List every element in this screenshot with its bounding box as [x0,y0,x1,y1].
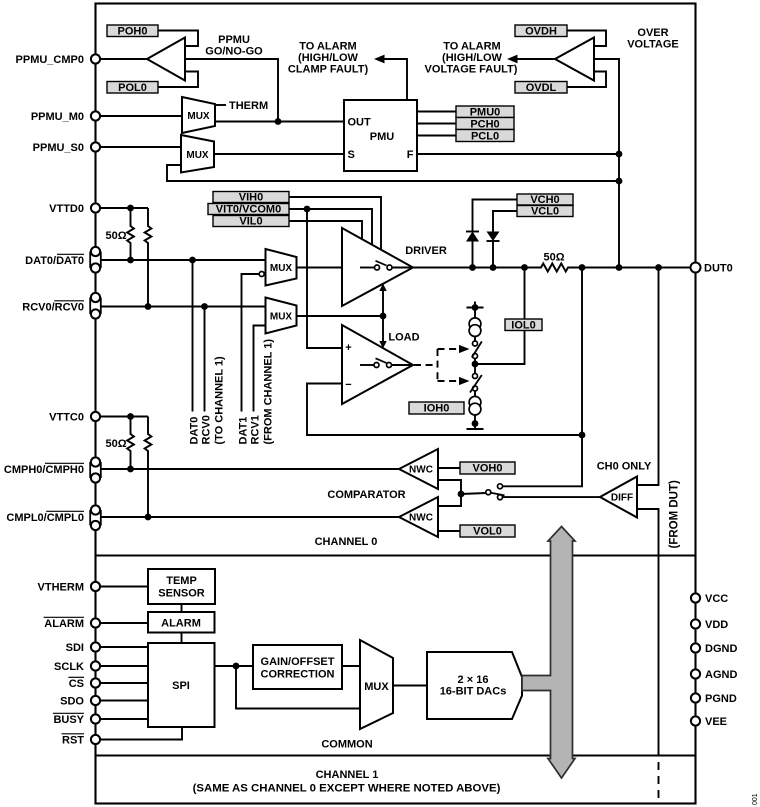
node RCV0 tap to channel 1 [201,303,208,310]
pin SDI [66,642,100,654]
svg-text:VIT0/VCOM0: VIT0/VCOM0 [216,204,281,216]
resistor 50ohm R2 [145,208,152,307]
diode clamp VCL0 [487,211,518,268]
svg-text:BUSY: BUSY [53,714,84,726]
PMU0 label box [456,106,514,119]
wire DUT branch down to DIFF [637,268,659,486]
dashed wire load output [414,364,438,366]
dashed wire channel1 stub [658,762,660,798]
wire DAT0 down to channel 1 [192,260,194,412]
svg-text:S: S [348,149,355,161]
svg-text:OVER: OVER [637,27,668,39]
wire RST [101,727,182,740]
node diode2 [490,264,497,271]
svg-text:MUX: MUX [186,150,209,161]
node comparator branch [579,264,586,271]
svg-text:PCL0: PCL0 [471,131,499,143]
wire VTTC0 to resistors [100,416,148,418]
svg-text:RST: RST [62,735,84,747]
svg-text:RCV1: RCV1 [250,415,262,444]
wire PMU F to node x619 [417,153,619,155]
wire DAT1 from channel 1 [242,274,259,412]
svg-text:MUX: MUX [270,263,293,274]
svg-text:16-BIT DACs: 16-BIT DACs [440,686,507,698]
pin VTTD0 [49,203,100,215]
svg-text:SCLK: SCLK [54,661,84,673]
divider common/channel1 [96,754,696,756]
wire temp sensor to alarm [181,604,183,612]
wire PMU to PMU0 box [417,111,456,113]
svg-text:CHANNEL 1: CHANNEL 1 [316,769,379,781]
svg-text:−: − [345,379,351,391]
wire VIL0 to driver [289,221,362,240]
svg-text:VEE: VEE [705,716,727,728]
wire NWC to VOH0 [438,467,460,469]
mux S0 [181,135,214,173]
rail stub bottom of load chain [467,415,484,430]
svg-text:RCV0/RCV0: RCV0/RCV0 [22,302,84,314]
pin SDO [60,696,100,708]
svg-text:VCH0: VCH0 [530,194,559,206]
wire alarm to spi [181,633,183,644]
svg-text:TEMP: TEMP [166,575,197,587]
wire mux S0 aux loop to node at x619 [167,165,619,181]
op-amp LOAD [342,325,413,404]
op-amp DRIVER [342,228,413,306]
svg-text:DAT1: DAT1 [238,417,250,445]
wire POH0 to comparator [158,31,198,47]
svg-text:50Ω: 50Ω [105,230,126,242]
svg-text:RCV0: RCV0 [201,415,213,444]
wire PPMU_S0 to mux [100,146,181,148]
svg-text:+: + [345,342,351,354]
svg-text:VOH0: VOH0 [473,463,503,475]
wire VIH0 to driver [289,197,381,250]
mux M0 [182,97,215,133]
wire DAT0 to mux [101,259,266,261]
node THERM junction [275,118,282,125]
wire RCV0 down to channel 1 [204,307,206,412]
wire THERM stub [215,104,226,106]
mux RCV [266,298,297,334]
arrow link driver-load [379,284,386,349]
node R2 to RCV0 [145,303,152,310]
pin CMPL0/CMPL0 [6,505,100,530]
wire NWC inputs link [438,480,461,506]
svg-text:50Ω: 50Ω [105,438,126,450]
wire mux M0 out to PMU OUT [215,121,344,123]
svg-text:VOLTAGE FAULT): VOLTAGE FAULT) [425,64,518,76]
pin ALARM [44,618,100,630]
OVDH label box [515,25,567,38]
wire RCV0 to mux [101,306,266,308]
op-amp DIFF [600,477,637,518]
svg-text:DAT0/DAT0: DAT0/DAT0 [25,255,84,267]
wire ov comparator input from DUT line [594,59,619,268]
svg-text:CLAMP FAULT): CLAMP FAULT) [288,64,369,76]
wire PPMU_CMP0 to comparator tip [100,58,147,60]
switch IOH [470,364,482,393]
wire RCV mux out to load node [297,315,384,317]
arrow to alarm clamp fault [374,55,385,64]
svg-text:GAIN/OFFSET: GAIN/OFFSET [261,656,335,668]
svg-text:CORRECTION: CORRECTION [261,669,335,681]
POL0 label box [107,82,158,95]
svg-text:VTTC0: VTTC0 [49,412,84,424]
wire SDO [101,700,148,702]
block 2x16 16-BIT DACs [427,652,522,719]
pin CS [69,678,100,690]
svg-text:(FROM DUT): (FROM DUT) [669,480,681,549]
svg-text:IOH0: IOH0 [424,403,450,415]
svg-text:PPMU_CMP0: PPMU_CMP0 [16,54,84,66]
node comparator line junction [579,432,586,439]
overline CMPH0 pin second [45,462,84,464]
svg-text:F: F [407,149,414,161]
svg-text:DGND: DGND [705,643,737,655]
pin BUSY [53,714,100,726]
diode clamp VCH0 [466,200,517,268]
wire VIT0/VCOM0 to driver [289,209,372,245]
svg-text:PPMU: PPMU [218,34,250,46]
svg-text:NWC: NWC [409,465,433,476]
node load branch [521,264,528,271]
svg-text:DAT0: DAT0 [189,417,201,445]
node diff branch [655,264,662,271]
svg-text:AGND: AGND [705,669,737,681]
svg-text:COMPARATOR: COMPARATOR [327,489,405,501]
pin VDD [691,619,728,631]
label PPMU GO/NO-GO [205,34,263,58]
IOL0 label box [505,319,542,332]
wire PMU to PCL0 box [417,135,456,137]
label TO ALARM (HIGH/LOW CLAMP FAULT) [288,41,369,76]
svg-text:SDI: SDI [66,642,84,654]
mux DAC select [360,640,393,729]
node R1 to DAT0 [127,257,134,264]
wire CMPH0 to NWC [101,468,399,470]
svg-text:DRIVER: DRIVER [405,245,447,257]
wire cs to switch [474,336,476,341]
pin RST [62,735,100,747]
svg-text:CMPL0/CMPL0: CMPL0/CMPL0 [6,512,84,524]
inverted input circle on DAT mux [259,272,264,277]
wire POL0 to comparator [158,72,198,88]
svg-text:OUT: OUT [348,117,372,129]
pin PPMU_S0 [33,142,100,154]
svg-text:2 × 16: 2 × 16 [458,674,489,686]
svg-text:DIFF: DIFF [611,493,633,504]
node ov branch [616,264,623,271]
pin PPMU_M0 [31,111,100,123]
wire PMU to PCH0 box [417,123,456,125]
svg-text:IOL0: IOL0 [511,320,535,332]
svg-text:ALARM: ALARM [44,618,84,630]
svg-text:LOAD: LOAD [388,332,419,344]
resistor 50ohm R4 [145,417,152,518]
current source IOL0 [469,318,481,337]
pin VTHERM [38,582,101,594]
dashed bracket to load switches [438,345,470,385]
svg-text:VCL0: VCL0 [531,206,559,218]
pin AGND [691,669,738,681]
wire SPI to gain/offset [215,665,254,667]
svg-text:(HIGH/LOW: (HIGH/LOW [442,52,502,64]
label TO ALARM (HIGH/LOW VOLTAGE FAULT) [425,41,518,76]
VIT0/VCOM0 label box [208,204,289,216]
VIL0 label box [213,216,289,228]
wire OVDH to ov comparator [567,31,606,47]
wire load center to DUT line [475,268,525,365]
arrow to alarm voltage fault [507,55,518,64]
node SPI out [233,663,240,670]
svg-text:COMMON: COMMON [321,739,372,751]
svg-text:OVDH: OVDH [525,26,557,38]
node VCOM tap [304,206,311,213]
svg-text:CMPH0/CMPH0: CMPH0/CMPH0 [4,464,84,476]
svg-text:(SAME AS CHANNEL 0 EXCEPT WHER: (SAME AS CHANNEL 0 EXCEPT WHERE NOTED AB… [193,783,501,795]
wire SCLK [101,665,148,667]
resistor 50ohm R1 [127,208,134,260]
wire pole to switch [461,493,486,494]
wire PMU top to clamp-fault arrow [383,59,407,100]
pin CMPH0/CMPH0 [4,457,101,482]
svg-text:TO ALARM: TO ALARM [443,41,500,53]
switch inside load [360,358,411,367]
bus DAC distribution arrow [522,527,575,779]
block SPI [148,643,215,727]
overline DAT0 pin second [57,253,84,255]
pin DUT0 [691,263,701,273]
wire comparator input from THERM node [185,59,278,122]
node comparator switch pole [458,491,465,498]
node aux junction [616,178,623,185]
pin DGND [691,643,738,655]
svg-text:ALARM: ALARM [161,618,201,630]
svg-text:PMU: PMU [370,131,395,143]
mux DAT [266,249,297,286]
svg-text:001: 001 [752,793,759,805]
svg-text:VOL0: VOL0 [473,526,502,538]
wire VCOM to load + input [307,209,342,348]
node DAT0 tap to channel 1 [189,257,196,264]
PCH0 label box [456,118,514,131]
svg-text:POH0: POH0 [118,26,148,38]
svg-text:MUX: MUX [187,111,210,122]
svg-text:CHANNEL 0: CHANNEL 0 [315,536,378,548]
wire switch to DIFF output [503,496,601,498]
svg-text:VIL0: VIL0 [239,216,262,228]
svg-text:GO/NO-GO: GO/NO-GO [205,46,263,58]
VOL0 label box [460,525,515,538]
wire mux S0 out to PMU S [214,153,344,155]
pin VTTC0 [49,412,100,424]
svg-text:CS: CS [69,678,84,690]
OVDL label box [515,82,567,95]
svg-text:50Ω: 50Ω [543,252,564,264]
svg-text:(HIGH/LOW: (HIGH/LOW [298,52,358,64]
node R3 to CMPH0 [127,466,134,473]
op-amp NWC high [399,449,438,489]
VOH0 label box [460,462,515,475]
overline BUSY pin [53,712,84,714]
overline RCV0 pin second [54,300,84,302]
pin DAT0/DAT0 [25,247,101,273]
wire VTHERM to temp sensor [101,586,148,588]
wire ov comparator output [516,58,555,60]
svg-text:(TO CHANNEL 1): (TO CHANNEL 1) [214,356,226,445]
current source IOH0 [469,391,481,415]
resistor 50ohm R3 [127,417,134,470]
node VTTC0 tap [127,413,134,420]
svg-text:CH0 ONLY: CH0 ONLY [597,461,652,473]
svg-text:DUT0: DUT0 [704,263,733,275]
overline CMPL0 pin second [46,510,84,512]
svg-text:VTHERM: VTHERM [38,582,84,594]
block GAIN/OFFSET CORRECTION [253,645,342,689]
wire OVDL to ov comparator [567,72,606,88]
wire CS [101,682,148,684]
svg-text:PCH0: PCH0 [470,119,499,131]
divider channel0/common [96,554,696,556]
pin PPMU_CMP0 [16,54,101,66]
node load center [472,361,479,368]
pin VEE [691,716,727,728]
wire NWC to VOL0 [438,530,460,532]
overline ALARM pin [44,616,84,618]
wire CMPL0 to NWC [101,516,399,518]
wire mux to DACs [393,685,427,687]
VCH0 label box [517,194,573,206]
wire DIFF lower output [637,509,659,756]
svg-text:PPMU_M0: PPMU_M0 [31,111,84,123]
wire DAT mux out to driver [297,267,343,269]
svg-text:OVDL: OVDL [526,82,557,94]
wire SPI to mux lower input [236,666,360,709]
POH0 label box [107,25,158,38]
pin VCC [691,593,728,605]
svg-text:SDO: SDO [60,696,84,708]
op-amp over voltage comparator [555,38,594,81]
svg-text:VDD: VDD [705,619,728,631]
outer chip border [96,4,696,804]
wire BUSY [101,718,148,720]
wire PPMU_M0 to mux [100,115,182,117]
wire ALARM pin to alarm block [101,622,148,624]
pin RCV0/RCV0 [22,293,101,319]
switch IOL [472,341,482,359]
svg-text:(FROM CHANNEL 1): (FROM CHANNEL 1) [263,339,275,445]
svg-text:PGND: PGND [705,693,737,705]
svg-text:VOLTAGE: VOLTAGE [627,39,679,51]
wire to center node [474,359,476,365]
svg-text:MUX: MUX [270,312,293,323]
pin SCLK [54,661,100,673]
node diode1 [469,264,476,271]
svg-text:PMU0: PMU0 [470,107,501,119]
pin PGND [691,693,737,705]
op-amp NWC low [399,497,438,537]
VCL0 label box [517,206,573,218]
node VTTD0 tap [127,205,134,212]
block TEMP SENSOR [148,569,215,604]
op-amp PPMU go/no-go comparator [147,38,185,81]
wire driver output to DUT0 with 50ohm resistor [411,264,690,272]
svg-text:VTTD0: VTTD0 [49,203,84,215]
wire SDI [101,646,148,648]
block PMU [344,100,417,171]
rail stub top of load chain [467,302,484,318]
switch inside driver [360,261,411,270]
overline CS pin [68,676,84,678]
svg-text:SPI: SPI [172,680,190,692]
node R4 to CMPL0 [145,514,152,521]
VIH0 label box [213,192,289,204]
node F junction [616,151,623,158]
svg-text:VCC: VCC [705,593,728,605]
svg-text:SENSOR: SENSOR [158,588,205,600]
svg-text:THERM: THERM [229,100,268,112]
switch comparator source select [486,484,505,500]
overline RST pin [62,733,84,735]
block ALARM [148,612,215,633]
IOH0 label box [409,402,464,415]
svg-text:MUX: MUX [364,681,389,693]
wire gain/offset to mux [342,665,360,667]
label OVER VOLTAGE [627,27,679,51]
node load link [380,313,387,320]
PCL0 label box [456,130,514,143]
svg-text:POL0: POL0 [118,82,147,94]
svg-text:PPMU_S0: PPMU_S0 [33,142,84,154]
svg-text:NWC: NWC [409,513,433,524]
wire DUT branch down to comparator switch [503,268,583,487]
wire RCV1 from channel 1 [254,326,266,412]
svg-text:TO ALARM: TO ALARM [299,41,356,53]
wire VTTD0 to resistors [100,207,148,209]
svg-text:VIH0: VIH0 [239,192,263,204]
wire load - input to comparator line [307,384,582,436]
